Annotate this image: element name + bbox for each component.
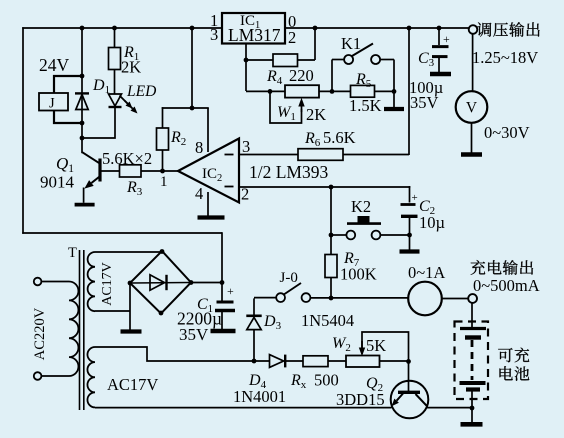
IC2 minus bottom bbox=[225, 186, 234, 188]
svg-text:+: + bbox=[227, 284, 234, 298]
K2 contact right bbox=[372, 231, 381, 240]
node junction battery-rail bbox=[470, 406, 475, 411]
op-amp IC2 (comparator) bbox=[178, 139, 239, 203]
node junction V+ feed bbox=[190, 106, 195, 111]
svg-text:3DD15: 3DD15 bbox=[336, 390, 385, 409]
wire battery ground stem bbox=[471, 408, 473, 423]
node junction pin2-K2 bbox=[329, 185, 334, 190]
wire lower winding top lead bbox=[95, 347, 270, 361]
node junction LED return bbox=[80, 136, 85, 141]
node junction K2 line bbox=[329, 233, 334, 238]
wire bottom rail left bbox=[95, 407, 392, 409]
svg-text:LM317: LM317 bbox=[228, 25, 281, 45]
transformer secondary upper coil bbox=[88, 252, 95, 311]
svg-text:24V: 24V bbox=[39, 55, 70, 75]
wire relay branch vertical bbox=[81, 28, 83, 139]
switch K2 pushbutton bbox=[347, 222, 381, 225]
svg-text:0~500mA: 0~500mA bbox=[473, 276, 540, 295]
wire R2 top bbox=[162, 107, 164, 128]
wire bridge right to C1 node bbox=[191, 282, 222, 284]
K2 contact left bbox=[346, 231, 355, 240]
wire primary bottom bbox=[41, 375, 69, 377]
wire secondary upper bottom lead bbox=[95, 310, 130, 312]
node junction rail-R4 bbox=[313, 26, 318, 31]
node junction C2 bottom bbox=[407, 233, 412, 238]
ground battery bbox=[461, 422, 483, 427]
wire relay loop bbox=[54, 76, 82, 94]
wire top rail left (unregulated DC to IC1 input) bbox=[22, 27, 222, 29]
svg-text:5.6K×2: 5.6K×2 bbox=[102, 149, 152, 168]
capacitor C3 bbox=[438, 28, 440, 45]
svg-text:1/2 LM393: 1/2 LM393 bbox=[249, 162, 328, 182]
node junction R7-line bbox=[329, 296, 334, 301]
node junction relay top bbox=[80, 74, 85, 79]
wire D3 to J-0 bbox=[254, 297, 277, 299]
wire Q1 base bbox=[100, 170, 120, 172]
wire IC2 pin8 bbox=[207, 108, 209, 152]
contact J-0 left bbox=[276, 293, 285, 302]
node junction rail sense bbox=[407, 26, 412, 31]
wire LED to relay branch bbox=[82, 107, 115, 139]
transistor Q1 emitter bbox=[91, 176, 100, 183]
svg-text:0~30V: 0~30V bbox=[484, 123, 530, 142]
battery plate 2 short bbox=[465, 335, 481, 339]
wire K1 right bbox=[380, 59, 394, 61]
bridge rectifier bbox=[130, 251, 191, 314]
transistor Q2 circle bbox=[391, 381, 429, 419]
potentiometer W2 bbox=[346, 356, 380, 368]
terminal regulated output bbox=[469, 25, 478, 34]
wire R2 bottom bbox=[162, 150, 164, 171]
svg-text:5.6K: 5.6K bbox=[323, 128, 356, 147]
wire Rx to W2 bbox=[328, 360, 346, 362]
bridge node bottom bbox=[159, 311, 164, 316]
ground voltmeter bbox=[461, 152, 482, 156]
wire R5 line bbox=[332, 90, 394, 92]
ground C2 bbox=[400, 249, 420, 253]
wire K1 right vertical bbox=[393, 60, 395, 92]
wire K2 branch vertical bbox=[330, 187, 332, 255]
capacitor C1 bbox=[221, 283, 223, 301]
battery dashed box bbox=[455, 322, 489, 400]
resistor R1 bbox=[109, 48, 121, 70]
resistor R4 bbox=[273, 54, 298, 67]
wire Q2 base vertical bbox=[408, 361, 410, 391]
wire left vertical rail bbox=[22, 27, 24, 234]
resistor Rx bbox=[303, 356, 328, 367]
wire secondary upper top lead bbox=[95, 251, 162, 253]
W1 wiper arrow bbox=[298, 98, 304, 107]
svg-text:2: 2 bbox=[288, 28, 296, 47]
wire terminal to voltmeter bbox=[472, 34, 474, 92]
wire W2 to Q2 node bbox=[380, 360, 409, 362]
wire voltmeter to ground bbox=[471, 123, 473, 153]
ground C1 bbox=[211, 329, 236, 334]
svg-text:LED: LED bbox=[126, 83, 156, 100]
primary terminal top bbox=[34, 278, 42, 286]
svg-text:10µ: 10µ bbox=[419, 213, 445, 232]
resistor R3 bbox=[120, 165, 142, 177]
wire K2 right bbox=[380, 234, 409, 236]
wire IC1 adj bbox=[245, 44, 247, 92]
label rechargeable battery 1 bbox=[498, 348, 529, 363]
ground C3 bbox=[430, 72, 451, 76]
wire K2 left bbox=[331, 234, 346, 236]
svg-text:8: 8 bbox=[195, 138, 203, 157]
svg-text:0~1A: 0~1A bbox=[408, 263, 445, 282]
ground bridge bbox=[121, 329, 142, 333]
svg-text:2K: 2K bbox=[121, 58, 141, 77]
node junction rail-C3 bbox=[437, 26, 442, 31]
wire top rail right (regulated output) bbox=[285, 27, 469, 29]
wire bridge left to ground bbox=[129, 283, 131, 330]
switch J-0 arm bbox=[284, 283, 301, 295]
svg-text:1: 1 bbox=[160, 174, 168, 190]
wire D3 bottom bbox=[253, 330, 255, 361]
wire D4 to Rx bbox=[285, 360, 303, 362]
node junction relay bottom bbox=[80, 121, 85, 126]
svg-text:V: V bbox=[466, 100, 478, 117]
svg-text:1.5K: 1.5K bbox=[349, 96, 382, 115]
bridge inner diode bbox=[132, 282, 189, 285]
transistor Q1 collector wire bbox=[82, 152, 100, 164]
svg-text:AC17V: AC17V bbox=[107, 375, 158, 394]
wire bottom rail right bbox=[427, 407, 473, 409]
svg-text:AC17V: AC17V bbox=[100, 262, 115, 306]
transformer primary coil bbox=[69, 282, 78, 377]
node junction D3-D4 line bbox=[252, 359, 257, 364]
svg-text:K2: K2 bbox=[351, 197, 371, 216]
wire V+ feed horizontal bbox=[162, 107, 209, 109]
svg-text:3: 3 bbox=[242, 137, 250, 156]
bridge node right bbox=[189, 280, 194, 285]
wire R7 bottom bbox=[330, 278, 332, 299]
IC IC1 LM317 box bbox=[222, 13, 285, 44]
transformer core bbox=[79, 250, 81, 410]
wire primary top bbox=[41, 281, 69, 283]
wire W1 line bbox=[246, 90, 332, 92]
node junction R5-ground bbox=[392, 89, 397, 94]
W2 wiper loop bbox=[362, 332, 409, 361]
voltmeter V bbox=[456, 91, 488, 123]
svg-text:220: 220 bbox=[289, 66, 314, 85]
node junction Q2 base bbox=[406, 359, 411, 364]
wire K1 left bbox=[332, 59, 344, 61]
svg-text:1N5404: 1N5404 bbox=[301, 311, 354, 330]
bridge node left bbox=[128, 281, 133, 286]
diode freewheel (relay) bbox=[75, 92, 89, 94]
wire R4 up to rail bbox=[314, 28, 316, 60]
wire battery bottom bbox=[471, 391, 473, 409]
resistor R7 bbox=[325, 255, 337, 278]
svg-text:500: 500 bbox=[314, 371, 339, 390]
capacitor C2 bbox=[409, 186, 411, 203]
transistor Q1 base bar bbox=[98, 159, 101, 182]
node junction W1-R5 bbox=[330, 89, 335, 94]
svg-text:4: 4 bbox=[195, 184, 203, 203]
switch K1 arm bbox=[352, 44, 373, 57]
svg-text:1.25~18V: 1.25~18V bbox=[472, 48, 538, 67]
wire R1 branch bbox=[114, 28, 116, 94]
node junction rail-relay bbox=[80, 26, 85, 31]
ground Q1 emitter bbox=[75, 203, 95, 207]
wire D3 top bbox=[253, 298, 255, 316]
W1 wiper loop bbox=[270, 91, 302, 123]
battery dashed middle bbox=[471, 340, 474, 380]
wire pin3 line bbox=[239, 154, 409, 156]
svg-text:+: + bbox=[443, 32, 450, 46]
transistor Q2 emitter bbox=[397, 394, 403, 401]
svg-text:35V: 35V bbox=[179, 325, 209, 344]
relay coil J bbox=[39, 93, 68, 111]
wire V+ from rail bbox=[191, 28, 193, 108]
svg-text:9014: 9014 bbox=[40, 173, 75, 192]
LED arrows bbox=[120, 96, 128, 104]
wire J-0 to ammeter bbox=[310, 297, 408, 299]
svg-text:K1: K1 bbox=[341, 34, 361, 53]
svg-text:2K: 2K bbox=[306, 105, 326, 124]
W2 wiper arrow bbox=[359, 348, 365, 357]
label rechargeable battery 2 bbox=[500, 366, 530, 381]
battery plate 3 long bbox=[460, 381, 486, 385]
svg-text:J-0: J-0 bbox=[280, 270, 298, 286]
resistor R2 bbox=[157, 128, 169, 150]
svg-text:100K: 100K bbox=[340, 265, 377, 284]
wire terminal to battery bbox=[471, 303, 473, 328]
svg-text:35V: 35V bbox=[410, 93, 439, 112]
svg-text:+: + bbox=[412, 192, 418, 204]
transistor Q2 collector bbox=[416, 394, 428, 406]
node junction rail V+ bbox=[190, 26, 195, 31]
ground IC2 bbox=[198, 215, 225, 219]
svg-text:1N4001: 1N4001 bbox=[233, 387, 286, 406]
label regulated output bbox=[477, 22, 540, 37]
ammeter 0-1A bbox=[408, 282, 442, 316]
node 1 junction bbox=[160, 169, 165, 174]
resistor R6 bbox=[298, 149, 343, 161]
bridge node top bbox=[160, 249, 165, 254]
diode D4 bbox=[270, 355, 284, 368]
node junction W1 wiper bbox=[268, 89, 273, 94]
resistor R5 bbox=[351, 85, 375, 97]
contact J-0 right bbox=[302, 293, 311, 302]
IC2 minus top bbox=[225, 154, 234, 156]
K1 contact left bbox=[344, 55, 353, 64]
svg-text:5K: 5K bbox=[366, 336, 386, 355]
K1 contact right bbox=[371, 55, 380, 64]
wire R3 to node1 bbox=[141, 170, 179, 172]
primary terminal bottom bbox=[34, 372, 42, 380]
wire pin2 line bbox=[239, 186, 410, 188]
diode D1 LED bbox=[109, 94, 122, 106]
potentiometer W1 bbox=[285, 85, 319, 97]
wire bottom horizontal to C1 node bbox=[22, 232, 222, 234]
wire IC2 pin4 bbox=[207, 192, 209, 216]
transformer secondary lower coil bbox=[87, 347, 95, 407]
label charge output bbox=[471, 260, 533, 275]
svg-text:3: 3 bbox=[210, 25, 218, 44]
svg-text:T: T bbox=[68, 245, 77, 261]
svg-text:J: J bbox=[49, 96, 55, 112]
transistor Q2 base bar bbox=[398, 391, 420, 394]
svg-text:AC220V: AC220V bbox=[32, 307, 48, 360]
terminal charge output bbox=[468, 294, 477, 303]
wire R5 to ground bbox=[393, 91, 395, 107]
node junction C1 bbox=[220, 280, 225, 285]
node junction rail-R1 bbox=[112, 26, 117, 31]
wire output sense vertical bbox=[408, 28, 410, 155]
wire K1 left vertical bbox=[331, 60, 333, 92]
node junction adj-R4 bbox=[244, 58, 249, 63]
wire vertical down to C1 node bbox=[221, 232, 223, 282]
ground R5 bbox=[384, 107, 404, 111]
wire R4 line bbox=[246, 59, 315, 61]
battery plate 1 long bbox=[460, 327, 486, 330]
wire ammeter to terminal bbox=[442, 298, 468, 300]
battery plate 4 short bbox=[466, 387, 480, 391]
diode D3 bbox=[247, 317, 261, 329]
